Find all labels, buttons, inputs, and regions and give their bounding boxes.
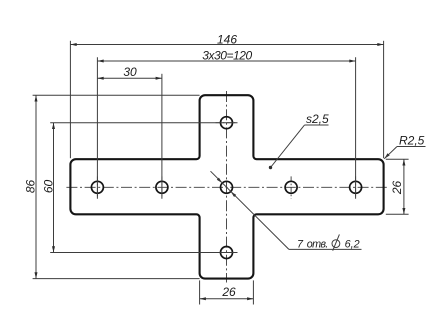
hole 7 (bottom) — [221, 247, 233, 259]
short vertical centerline of hole at x=356 — [355, 176, 357, 198]
svg-text:7: 7 — [297, 238, 304, 250]
extension line through hole 1 for dims 120/30 — [96, 57, 98, 198]
hole 1 (left) — [91, 181, 103, 193]
hole 5 (right) — [350, 181, 362, 193]
short horizontal centerline of top column hole — [216, 122, 238, 124]
dimension 60 (column hole spacing) — [42, 123, 56, 253]
extension line right for dim 146 — [383, 41, 385, 158]
dimension 146 (overall width) — [70, 32, 383, 46]
dimension 86 (overall height) — [23, 95, 37, 278]
dimension 26 (bar width, right) — [390, 159, 405, 214]
svg-text:146: 146 — [217, 32, 237, 46]
extension line top for right dim 26 — [386, 158, 409, 160]
svg-text:6,2: 6,2 — [345, 238, 360, 250]
svg-text:26: 26 — [390, 181, 404, 196]
part outline: cross-shaped plate — [70, 95, 383, 278]
svg-text:86: 86 — [23, 180, 37, 194]
extension line bottom for right dim 26 — [386, 213, 409, 215]
hole 3 (center) — [221, 181, 233, 193]
short horizontal centerline of bottom column hole — [216, 252, 238, 254]
extension line left for dim 146 — [69, 41, 71, 158]
leader s2,5 (sheet thickness) — [269, 112, 329, 169]
horizontal centerline through hole row — [66, 186, 387, 188]
extension line left for bottom dim 26 — [199, 280, 201, 304]
leader R2,5 (corner radius) — [384, 134, 425, 159]
svg-text:3x30=120: 3x30=120 — [202, 49, 252, 63]
short vertical centerline of hole at x=291 — [290, 176, 292, 198]
short vertical centerline of hole at x=97 — [96, 176, 98, 198]
dimension 30 (first hole spacing) — [97, 65, 161, 80]
dimension 3x30=120 (hole spacing) — [97, 49, 355, 63]
extension line top for dim 86 — [33, 94, 200, 96]
svg-text:R2,5: R2,5 — [399, 134, 425, 148]
dimension 26 (bar width, bottom) — [200, 285, 254, 300]
extension line bottom for dim 86 — [33, 278, 200, 280]
extension line right for bottom dim 26 — [252, 280, 254, 304]
hole 6 (top) — [221, 117, 233, 129]
leader: 7 holes dia 6,2 — [211, 171, 362, 251]
hole 2 — [156, 181, 168, 193]
extension line through hole 2 for dim 30 — [161, 74, 163, 199]
extension line through hole 5 for dim 120 — [355, 57, 357, 198]
svg-text:60: 60 — [42, 180, 56, 194]
extension line top for dim 60 — [50, 122, 237, 124]
svg-text:26: 26 — [221, 285, 236, 299]
svg-text:отв.: отв. — [307, 238, 328, 250]
diameter symbol — [332, 240, 340, 248]
extension line bottom for dim 60 — [50, 252, 237, 254]
hole 4 — [285, 181, 297, 193]
svg-text:s2,5: s2,5 — [306, 112, 329, 126]
short vertical centerline of hole at x=162 — [161, 176, 163, 198]
svg-text:30: 30 — [123, 65, 137, 79]
vertical centerline through hole column — [226, 91, 228, 283]
